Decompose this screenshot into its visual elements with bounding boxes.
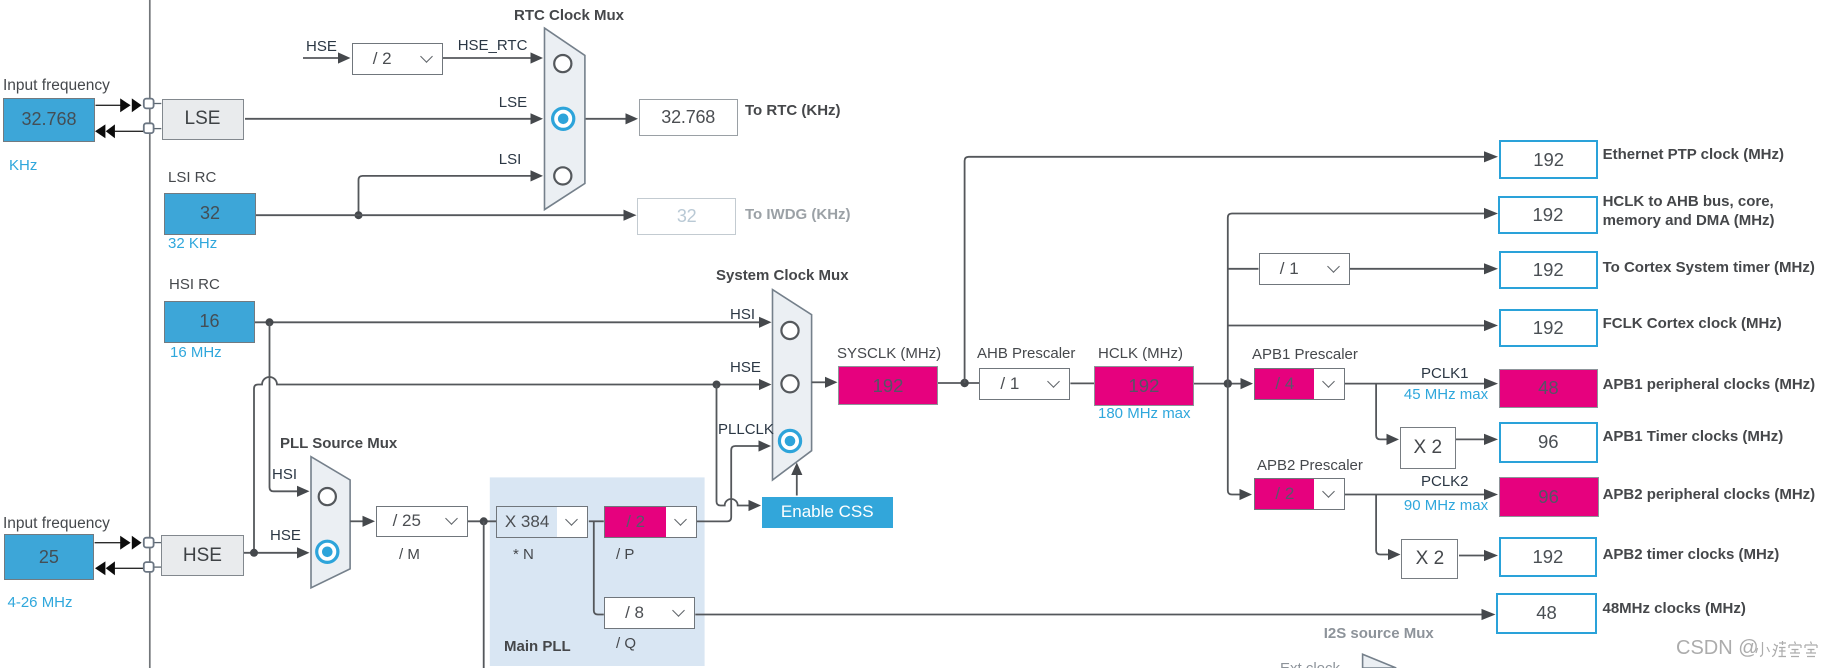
value box LSE input 32.768 [3, 98, 95, 143]
wire /M to *N [468, 520, 497, 522]
radio input PLL HSE selected [317, 541, 338, 562]
wire PCLK2 from APB2 prescaler to APB2 peripheral box [1344, 489, 1498, 500]
wire down to I2S source mux [483, 521, 485, 668]
label APB1 Timer clocks (MHz) [1603, 429, 1784, 445]
chip boundary line [149, 0, 151, 668]
wire LSI branch to RTC mux [359, 170, 544, 215]
wire LSI to IWDG box [256, 210, 637, 221]
label HCLK (MHz) [1098, 346, 1183, 362]
radio input PLLCLK selected [779, 430, 800, 451]
junction HSE system [713, 381, 721, 389]
label * N [513, 547, 534, 563]
label To IWDG (KHz) [745, 207, 851, 223]
mux System Clock Mux body [773, 290, 812, 480]
label FCLK Cortex clock (MHz) [1603, 316, 1782, 332]
combo PLL M divider /25 [376, 506, 468, 537]
pin square LSE input [144, 99, 154, 109]
value box Cortex timer 192 [1499, 251, 1598, 289]
label HSI RC [169, 277, 220, 293]
block X2 APB2 [1401, 539, 1458, 580]
value box To IWDG 32 disabled [637, 198, 736, 235]
junction SYSCLK [960, 379, 968, 387]
label 180 MHz max [1098, 406, 1191, 422]
wire cortex prescaler to cortex timer box [1350, 263, 1498, 274]
wire /Q to 48MHz clocks box [695, 609, 1495, 620]
junction HCLK trunk [1224, 379, 1232, 387]
wire to Ethernet PTP box [965, 151, 1498, 383]
label Ext clock clipped [1280, 661, 1340, 668]
wire PLLCLK from /P to system clock mux [695, 440, 771, 521]
title PLL Source Mux [280, 436, 397, 452]
wire HSE riser to system clock mux with hop [254, 377, 772, 553]
wire PLL mux to /M divider [350, 516, 375, 527]
label Input frequency LSE [3, 78, 110, 94]
wire branch N-P to /Q [594, 521, 604, 614]
label Ethernet PTP clock (MHz) [1603, 147, 1784, 163]
label To RTC (KHz) [745, 103, 841, 119]
net label HSI system [730, 307, 755, 323]
wire HSE osc return with double arrow [95, 561, 161, 575]
value box HCLK 192 [1094, 366, 1194, 405]
value box HSE input 25 [4, 534, 95, 580]
label SYSCLK (MHz) [837, 346, 941, 362]
combo cortex prescaler /1 [1259, 253, 1351, 285]
label APB1 peripheral clocks (MHz) [1603, 377, 1816, 393]
net label HSE_RTC [458, 38, 528, 54]
net label LSI [499, 152, 522, 168]
label / P [616, 547, 634, 563]
combo APB2 prescaler /2 [1254, 478, 1345, 510]
wire RTC mux output to RTC box [586, 113, 639, 124]
wire HSE to PLL source mux [243, 547, 310, 558]
radio input PLL HSI [319, 488, 336, 505]
watermark CSDN [1676, 638, 1759, 659]
value box SYSCLK 192 [838, 366, 938, 405]
value box 48MHz clocks 48 [1496, 593, 1597, 634]
label 16 MHz [170, 345, 222, 361]
block HSE oscillator [161, 535, 244, 576]
wire Enable CSS to system clock mux [791, 463, 802, 496]
wire *N to /P [589, 520, 604, 522]
value box LSI 32 [164, 193, 256, 235]
net label HSE top [306, 39, 337, 55]
combo PLL Q divider /8 [604, 597, 696, 628]
wire branch to X2 APB2 [1376, 495, 1400, 561]
wire HCLK to APB1 prescaler [1194, 378, 1253, 389]
wire PCLK1 from APB1 prescaler to APB1 peripheral box [1344, 378, 1498, 389]
label APB2 timer clocks (MHz) [1603, 547, 1780, 563]
net label PCLK1 [1421, 366, 1469, 382]
button Enable CSS [762, 497, 893, 528]
value box FCLK 192 [1499, 309, 1598, 347]
combo RTC divider /2 [352, 43, 443, 75]
value box Ethernet PTP 192 [1499, 140, 1598, 179]
junction M-N [480, 517, 488, 525]
label APB2 Prescaler [1257, 458, 1363, 474]
wire HSE to /2 RTC divider [303, 52, 351, 63]
wire X2 APB1 to timer box [1456, 434, 1499, 445]
radio input LSI [554, 167, 571, 184]
net label PLL HSI [272, 467, 297, 483]
label APB1 Prescaler [1252, 347, 1358, 363]
net label PLLCLK [718, 422, 774, 438]
label To Cortex System timer (MHz) [1603, 260, 1815, 276]
label 45 MHz max [1404, 387, 1488, 403]
block LSE oscillator [162, 99, 244, 140]
label LSI RC [168, 170, 216, 186]
wire system mux to SYSCLK box [812, 377, 838, 388]
panel Main PLL background [490, 477, 705, 666]
combo PLL P divider /2 [604, 506, 697, 538]
label I2S source Mux [1324, 626, 1434, 642]
wire HSI to system clock mux [255, 317, 772, 328]
wire LSE to RTC mux [245, 113, 543, 124]
combo APB1 prescaler /4 [1254, 368, 1345, 400]
title System Clock Mux [716, 268, 849, 284]
wire trunk down to APB2 prescaler [1228, 384, 1252, 501]
value box HSI 16 [164, 301, 255, 343]
combo AHB prescaler /1 [979, 368, 1070, 400]
value box HCLK AHB 192 [1498, 196, 1597, 234]
title RTC Clock Mux [514, 8, 624, 24]
net label HSE system [730, 360, 761, 376]
value box To RTC 32.768 [639, 99, 738, 136]
title Main PLL [504, 639, 571, 655]
junction LSI [355, 211, 363, 219]
pin square HSE input [144, 538, 154, 548]
wire /2 divider to RTC mux HSE_RTC input [443, 52, 543, 63]
pin square HSE return [144, 562, 154, 572]
radio input HSE system [781, 375, 798, 392]
wire HSE osc input with double arrow [95, 536, 162, 550]
wire branch to X2 APB1 [1376, 384, 1399, 445]
combo PLL N multiplier X384 [496, 506, 588, 538]
block X2 APB1 [1400, 427, 1456, 469]
label / M [399, 547, 420, 563]
wire SYSCLK to AHB prescaler [938, 382, 979, 384]
label / Q [616, 636, 636, 652]
label 90 MHz max [1404, 498, 1488, 514]
label 4-26 MHz [8, 595, 73, 611]
wire X2 APB2 to timer box [1459, 550, 1498, 561]
junction HSI [266, 318, 274, 326]
net label LSE [499, 95, 527, 111]
value box APB1 peripheral 48 [1499, 369, 1599, 408]
value box APB2 peripheral 96 [1499, 477, 1599, 517]
radio input LSE selected [553, 108, 574, 129]
wire AHB prescaler to HCLK box [1070, 382, 1094, 384]
wire HSI branch to PLL source mux [270, 322, 310, 497]
label Input frequency HSE [3, 516, 110, 532]
label 32 KHz [168, 236, 217, 252]
wire trunk to FCLK box [1228, 320, 1498, 331]
radio input HSI system [781, 322, 798, 339]
radio input HSE_RTC [554, 55, 571, 72]
label APB2 peripheral clocks (MHz) [1603, 487, 1816, 503]
mux RTC Clock Mux body [545, 28, 585, 210]
wire LSE osc input with double arrow [96, 98, 162, 112]
mux PLL Source Mux body [311, 457, 350, 588]
net label PLL HSE [270, 528, 301, 544]
label AHB Prescaler [977, 346, 1075, 362]
wire HSE to Enable CSS with hop [717, 385, 762, 512]
wire trunk up to HCLK AHB bus box [1228, 208, 1498, 384]
label KHz [9, 158, 37, 174]
mux I2S source mux partial body [1363, 654, 1397, 668]
pin square LSE return [144, 123, 154, 133]
label HCLK to AHB bus core memory and DMA [1603, 192, 1775, 231]
value box APB2 timer 192 [1499, 537, 1598, 578]
net label PCLK2 [1421, 474, 1469, 490]
label 48MHz clocks (MHz) [1603, 601, 1746, 617]
wire trunk to cortex prescaler [1228, 268, 1259, 270]
value box APB1 timer 96 [1499, 422, 1598, 463]
watermark CJK glyphs [1755, 640, 1819, 660]
wire LSE osc return with double arrow [95, 124, 161, 138]
junction HSE [250, 549, 258, 557]
